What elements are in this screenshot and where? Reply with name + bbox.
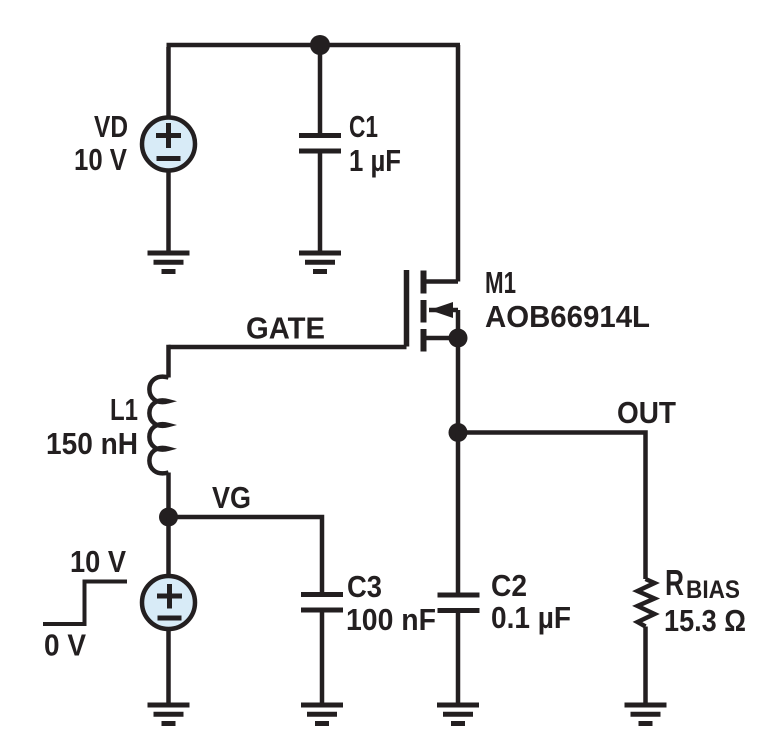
capacitor C2 bbox=[438, 433, 480, 705]
svg-text:VG: VG bbox=[212, 480, 251, 515]
svg-text:10 V: 10 V bbox=[74, 142, 127, 177]
svg-text:C1: C1 bbox=[349, 109, 378, 144]
node source-body junction bbox=[449, 329, 468, 348]
svg-text:1 µF: 1 µF bbox=[349, 143, 401, 178]
ground C2 bbox=[437, 705, 479, 724]
svg-text:OUT: OUT bbox=[617, 395, 676, 430]
node OUT junction bbox=[449, 423, 468, 442]
svg-text:L1: L1 bbox=[110, 392, 138, 427]
wire VD to top rail bbox=[166, 47, 171, 116]
resistor RBIAS bbox=[638, 579, 655, 627]
node junction top rail bbox=[310, 35, 330, 55]
wire VD to ground bbox=[166, 171, 171, 252]
svg-text:100 nF: 100 nF bbox=[346, 602, 436, 637]
svg-text:150 nH: 150 nH bbox=[46, 426, 138, 461]
svg-text:C2: C2 bbox=[491, 568, 527, 603]
wire resistor to ground bbox=[643, 627, 648, 705]
step waveform symbol bbox=[43, 582, 127, 625]
capacitor C1 bbox=[299, 47, 341, 252]
node VG bbox=[159, 508, 178, 527]
svg-text:BIAS: BIAS bbox=[686, 576, 740, 604]
svg-text:VD: VD bbox=[94, 109, 128, 144]
svg-text:GATE: GATE bbox=[246, 311, 325, 346]
svg-text:C3: C3 bbox=[347, 569, 382, 604]
capacitor C3 bbox=[301, 595, 343, 705]
svg-text:M1: M1 bbox=[485, 265, 516, 300]
wire gate bbox=[169, 345, 407, 350]
wire drain M1 bbox=[456, 45, 461, 282]
wire VG to C3 bbox=[169, 517, 323, 594]
ground VG source bbox=[148, 705, 190, 724]
svg-text:R: R bbox=[665, 562, 684, 603]
wire top rail bbox=[167, 43, 461, 48]
wire M1 source to OUT node bbox=[456, 338, 461, 433]
ground VD bbox=[148, 253, 190, 272]
svg-text:0 V: 0 V bbox=[44, 628, 86, 663]
wire inductor to VG node bbox=[166, 473, 171, 518]
svg-text:AOB66914L: AOB66914L bbox=[485, 299, 650, 334]
voltage source VD bbox=[142, 118, 195, 171]
wire gate corner down bbox=[166, 345, 171, 378]
ground RBIAS bbox=[625, 705, 667, 724]
ground C1 bbox=[299, 253, 341, 272]
ground C3 bbox=[301, 705, 343, 724]
svg-text:10 V: 10 V bbox=[70, 544, 126, 579]
wire VG source to ground bbox=[166, 629, 171, 704]
transistor M1 bbox=[407, 270, 459, 352]
inductor L1 bbox=[149, 377, 168, 474]
wire OUT bbox=[458, 433, 646, 580]
svg-text:15.3 Ω: 15.3 Ω bbox=[664, 603, 746, 638]
svg-text:0.1 µF: 0.1 µF bbox=[491, 600, 571, 635]
voltage source VG (step) bbox=[142, 517, 195, 629]
